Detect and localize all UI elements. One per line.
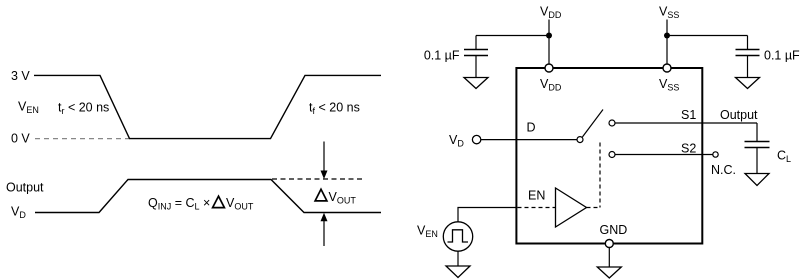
switch lever [582, 110, 603, 138]
svg-text:EN: EN [528, 189, 545, 203]
wire VDD rail to C1 [476, 35, 549, 37]
svg-text:S1: S1 [681, 108, 696, 122]
wire output down to CL [756, 123, 758, 142]
Output waveform [35, 180, 381, 213]
svg-text:N.C.: N.C. [711, 163, 736, 177]
svg-text:D: D [527, 121, 536, 135]
svg-text:VDD: VDD [540, 5, 562, 21]
source VEN [443, 222, 472, 251]
wire GND to ground [608, 248, 610, 268]
wire VSS rail to C2 [667, 35, 748, 37]
ground CL [745, 174, 769, 186]
svg-text:VD: VD [11, 205, 26, 221]
svg-text:VOUT: VOUT [226, 196, 254, 212]
wire VDD vertical [548, 20, 550, 65]
switch pole [577, 137, 583, 143]
svg-text:VDD: VDD [540, 77, 562, 93]
dashed 0 V baseline [35, 138, 129, 140]
wire VSS vertical [666, 20, 668, 65]
wire VD to switch pole [481, 139, 577, 141]
ground VEN [446, 266, 470, 278]
pin VSS [663, 64, 671, 72]
ground C2 [736, 78, 760, 89]
svg-text:Output: Output [720, 108, 758, 122]
wire S1 to output [615, 122, 757, 124]
svg-text:VEN: VEN [18, 100, 39, 116]
wire VEN to ground [457, 251, 459, 266]
wire VEN to box [458, 208, 516, 222]
svg-text:VSS: VSS [659, 77, 679, 93]
arrow down to dashed level [321, 142, 328, 180]
label QINJ = CL x delta VOUT [148, 196, 254, 212]
svg-text:QINJ = CL ×: QINJ = CL × [148, 196, 210, 212]
switch throw S2 [609, 152, 615, 158]
svg-text:CL: CL [777, 149, 791, 165]
dashed delta VOUT level [272, 178, 365, 180]
buffer EN driver [556, 188, 587, 227]
terminal NC [713, 152, 718, 157]
terminal VD [472, 135, 480, 143]
svg-text:tr < 20 ns: tr < 20 ns [58, 101, 109, 117]
switch throw S1 [609, 120, 615, 126]
dashed control line vertical [599, 143, 601, 208]
junction dot VSS [664, 33, 670, 39]
label delta VOUT [315, 189, 356, 205]
junction dot VDD [546, 33, 552, 39]
DUT box [516, 68, 702, 244]
ground GND [597, 267, 621, 278]
capacitor CL [745, 142, 770, 174]
svg-text:VD: VD [449, 133, 464, 149]
svg-text:tf < 20 ns: tf < 20 ns [309, 101, 360, 117]
VEN waveform [34, 75, 381, 138]
capacitor C2 0.1 uF [736, 36, 760, 78]
svg-text:0 V: 0 V [11, 132, 30, 146]
svg-text:S2: S2 [681, 142, 696, 156]
svg-text:0.1 µF: 0.1 µF [764, 48, 800, 62]
pin GND [605, 240, 613, 248]
ground C1 [464, 78, 488, 89]
pin VDD [545, 64, 553, 72]
svg-text:VSS: VSS [659, 5, 679, 21]
dashed control line from box edge to buffer [518, 207, 556, 209]
capacitor C1 0.1 uF [464, 36, 488, 78]
svg-text:VOUT: VOUT [329, 190, 357, 206]
svg-text:GND: GND [600, 223, 628, 237]
dashed control line buffer output [587, 207, 601, 209]
svg-text:3 V: 3 V [11, 69, 30, 83]
svg-text:Output: Output [6, 181, 44, 195]
arrow up to low level [321, 213, 328, 246]
svg-text:0.1 µF: 0.1 µF [424, 48, 460, 62]
svg-text:VEN: VEN [417, 224, 438, 240]
wire S2 to NC [615, 154, 713, 156]
